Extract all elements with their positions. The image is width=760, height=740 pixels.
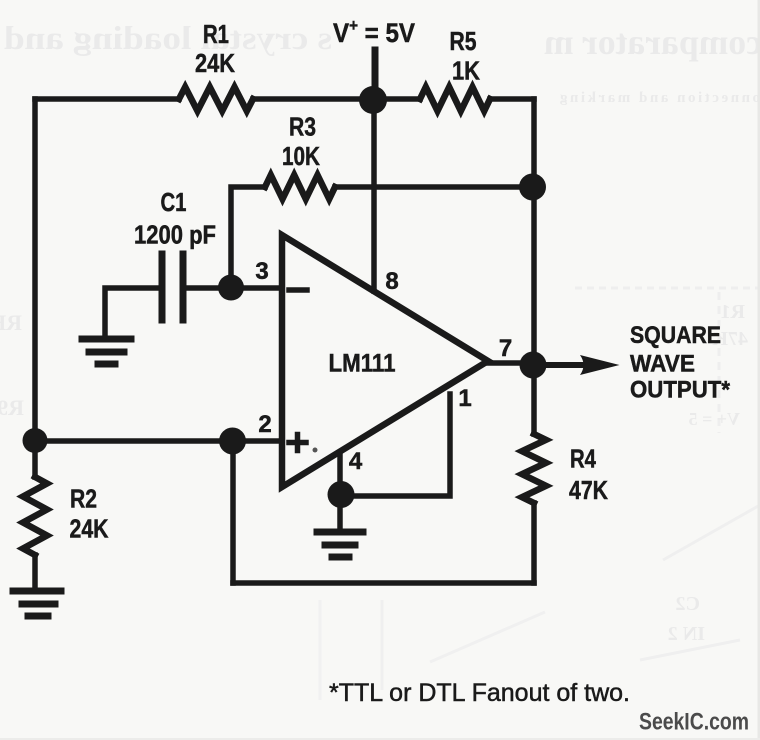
wire left vertical rail — [32, 99, 38, 441]
bleed-through left edge marks — [0, 310, 22, 335]
op-amp plus input mark — [289, 435, 306, 451]
bleed-through mirrored text top-left — [4, 21, 332, 57]
svg-text:R5: R5 — [450, 26, 477, 56]
wire C1 to pin 3 — [186, 285, 282, 291]
svg-text:R1: R1 — [203, 19, 229, 49]
wire pin 1 — [340, 394, 450, 496]
wire bottom rail — [233, 580, 534, 586]
svg-text:1200 pF: 1200 pF — [134, 220, 216, 250]
wire pin 4 — [337, 453, 343, 495]
bleed-through faint marks right middle — [575, 287, 760, 290]
svg-text:LM111: LM111 — [329, 350, 396, 378]
svg-text:OUTPUT*: OUTPUT* — [630, 377, 731, 404]
svg-text:8: 8 — [385, 268, 398, 295]
svg-text:R1: R1 — [721, 301, 745, 323]
wire top rail middle — [253, 96, 420, 102]
svg-text:47K: 47K — [569, 475, 608, 505]
wire top rail right lead — [490, 96, 534, 102]
svg-text:C1: C1 — [161, 187, 187, 217]
wire pin4 ground lead — [337, 495, 343, 530]
ground under R2 — [13, 588, 61, 595]
bleed-through mirrored text top-right — [544, 22, 760, 62]
bleed-through faint line top-right — [560, 90, 760, 106]
node: left rail pin2 junction — [23, 428, 48, 453]
node: pin4 ground junction — [328, 481, 355, 508]
node: R3 right junction — [519, 174, 546, 201]
node: pin2 feedback junction — [219, 428, 246, 455]
wire right vertical x534 — [531, 99, 537, 365]
svg-text:WAVE: WAVE — [630, 351, 695, 378]
wire R3 left leg — [231, 187, 265, 287]
scan edge bottom — [0, 738, 760, 740]
svg-text:24K: 24K — [70, 514, 109, 544]
resistor R2 — [23, 477, 47, 555]
svg-text:10K: 10K — [282, 141, 320, 171]
svg-text:C2: C2 — [676, 593, 700, 615]
svg-text:4: 4 — [349, 448, 363, 475]
op-amp U1 triangle — [282, 235, 488, 487]
wire R2 leads — [32, 441, 38, 589]
wire C1 ground lead — [105, 288, 159, 335]
svg-text:*TTL or DTL Fanout of two.: *TTL or DTL Fanout of two. — [329, 679, 630, 707]
svg-text:2: 2 — [258, 411, 271, 438]
capacitor C1 plates — [159, 254, 166, 320]
scan edge right — [758, 0, 760, 740]
wire pin 2 rail — [35, 438, 282, 444]
svg-text:comparator m: comparator m — [544, 22, 760, 62]
ink speck — [313, 448, 318, 453]
svg-text:1K: 1K — [452, 56, 480, 86]
resistor R3 — [265, 175, 335, 199]
op-amp minus input mark — [289, 287, 307, 293]
svg-text:1: 1 — [458, 385, 471, 412]
wire top rail left lead — [35, 96, 179, 102]
bleed-through faint marks bottom-right — [663, 505, 760, 560]
output arrowhead — [580, 355, 620, 375]
svg-text:V+ = 5V: V+ = 5V — [333, 16, 415, 48]
wire output arrow shaft — [545, 362, 584, 368]
svg-text:24K: 24K — [195, 48, 235, 78]
svg-text:R3: R3 — [289, 112, 316, 142]
svg-text:3: 3 — [255, 258, 268, 285]
wire R3 right lead — [335, 184, 534, 190]
svg-text:s crystal loading and: s crystal loading and — [4, 21, 332, 57]
ground under C1 — [82, 336, 131, 343]
bleed-through faint marks bottom-middle — [430, 612, 545, 662]
resistor R4 — [522, 434, 546, 503]
node: pin3/C1 junction — [218, 275, 244, 301]
wire feedback vertical — [230, 441, 236, 583]
wire R4 bottom lead — [531, 503, 537, 583]
svg-text:SeekIC.com: SeekIC.com — [639, 709, 749, 736]
svg-text:7: 7 — [499, 335, 512, 362]
svg-text:R9: R9 — [0, 395, 24, 420]
svg-text:V+ = 5: V+ = 5 — [688, 409, 740, 429]
resistor R5 — [420, 87, 490, 111]
svg-text:SQUARE: SQUARE — [630, 322, 721, 349]
svg-text:R2: R2 — [70, 484, 97, 514]
svg-text:R4: R4 — [570, 444, 596, 474]
wire V+ drop — [372, 50, 379, 99]
node: V+ rail junction — [359, 86, 387, 114]
wire R4 top lead — [531, 365, 537, 434]
resistor R1 — [179, 87, 253, 111]
wire pin 8 vertical — [371, 99, 377, 291]
svg-text:IN 2: IN 2 — [668, 623, 705, 645]
svg-text:RB: RB — [0, 310, 22, 335]
wire pin 7 to node — [488, 360, 534, 366]
ground under pin 4 — [317, 529, 363, 536]
node: output junction — [520, 352, 547, 379]
